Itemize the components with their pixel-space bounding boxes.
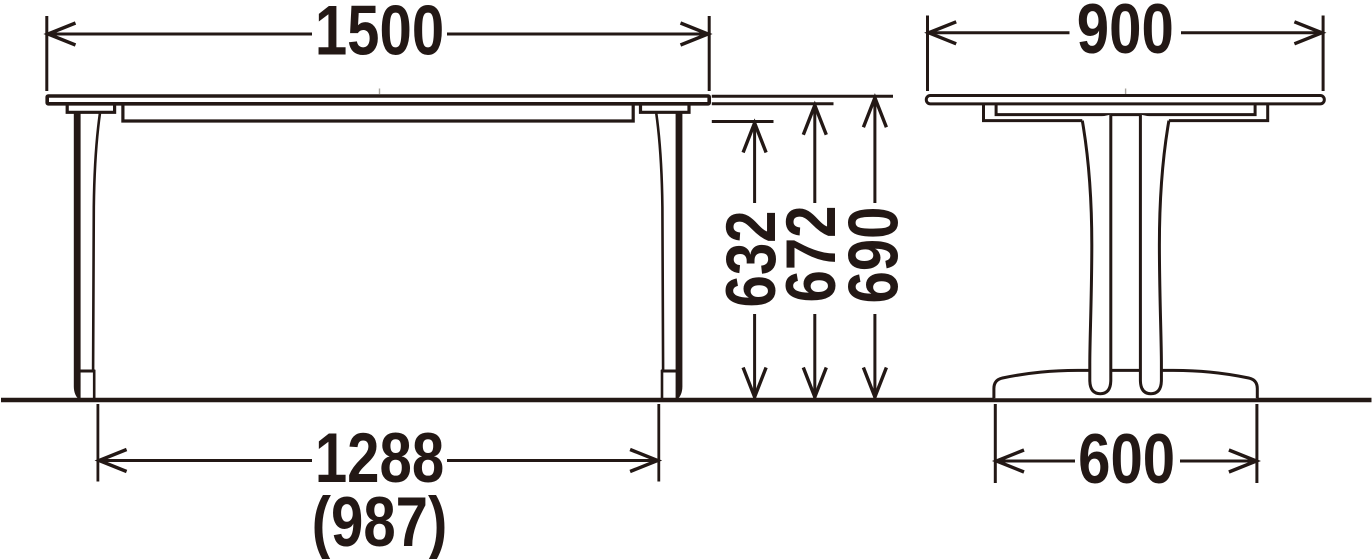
side view pedestal base [994,370,1257,398]
dim 672 bottom arrowhead [803,368,826,398]
front view left foot edge [93,370,96,400]
dim 672 vertical line segments [813,105,816,203]
dim 900 line right segment [1181,31,1323,34]
dim 1500 left arrowhead [48,23,76,45]
ground line [1,398,1372,402]
dim 1500 left extension line [45,16,48,91]
dim 600 line left segment [996,460,1075,463]
front view right foot edge [661,370,664,400]
dim 1288 right arrowhead [630,450,658,472]
front view tabletop [47,96,709,104]
dim 1288 line left segment [98,459,312,462]
dim 690 top arrowhead [863,98,886,128]
dim 1288 line right segment [447,459,658,462]
front view right foot cap [661,370,678,373]
dim 632 extension line from apron bottom [712,120,774,123]
dim 600 left arrowhead [997,450,1025,472]
dim 600 line right segment [1180,460,1257,463]
side view outer bracket plate [984,105,1083,121]
front view left foot cap [78,370,95,373]
dim 690 extension line from tabletop top [712,95,893,98]
front view right leg (thick edge) [676,113,683,400]
dim 1500 right extension line [708,16,711,91]
front view right leg inner curve [656,114,663,370]
dim 1500 right arrowhead [681,23,709,45]
dim 1500 line left segment [47,33,312,36]
front view left leg inner curve [93,114,100,370]
dim 900 right arrowhead [1294,22,1322,44]
side view center tick [1125,89,1127,95]
dim 900 line left segment [928,31,1070,34]
dim 690 bottom arrowhead [863,368,886,398]
dim 672 extension line from tabletop bottom [712,102,834,105]
dim 1288 left extension line [97,404,100,482]
side view pedestal right leg [1140,115,1169,394]
dim 632 top arrowhead [743,123,766,153]
dim 1288 right extension line [657,404,660,482]
dim 900 left extension line [926,16,929,92]
side view tabletop slab [926,96,1324,104]
front view center tick [379,89,381,95]
dim 1288 left arrowhead [99,450,127,472]
dim 672 top arrowhead [803,105,826,135]
svg-text:690: 690 [833,206,913,303]
svg-text:(987): (987) [312,481,448,559]
dim 900 left arrowhead [929,22,957,44]
dim 600 right extension line [1255,404,1258,483]
svg-text:600: 600 [1078,418,1175,498]
side view pedestal left leg [1082,115,1111,394]
dim 600 right arrowhead [1229,450,1257,472]
side view inner bracket plate [996,105,1255,115]
dim 600 left extension line [994,404,997,483]
svg-text:900: 900 [1077,0,1174,68]
front view left leg (thick edge) [74,113,81,400]
front view apron rail [123,105,633,122]
front view left leg mount plate [67,106,114,113]
front view right leg mount plate [641,106,690,113]
dim 632 vertical line segments [753,123,756,204]
dim 690 vertical line segments [873,97,876,203]
dim 632 bottom arrowhead [743,368,766,398]
svg-text:1500: 1500 [315,0,444,70]
dim 900 right extension line [1322,16,1325,92]
dim 1500 line right segment [447,33,709,36]
